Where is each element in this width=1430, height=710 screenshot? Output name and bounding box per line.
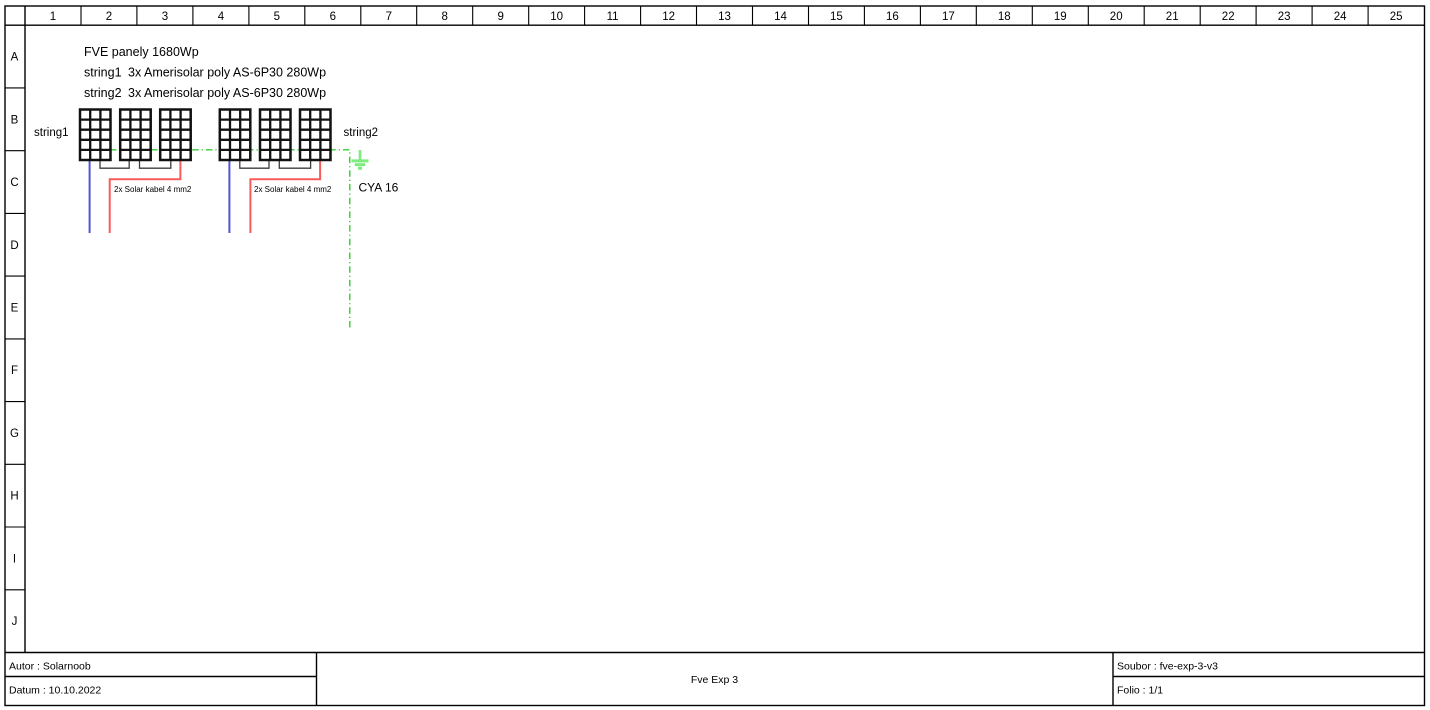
svg-text:10: 10 bbox=[550, 11, 563, 23]
svg-text:Autor : Solarnoob: Autor : Solarnoob bbox=[9, 661, 91, 673]
svg-text:Fve Exp 3: Fve Exp 3 bbox=[691, 674, 738, 686]
solar panel 2 bbox=[120, 110, 151, 161]
svg-text:FVE panely 1680Wp: FVE panely 1680Wp bbox=[84, 45, 199, 59]
svg-text:7: 7 bbox=[386, 11, 392, 23]
svg-text:24: 24 bbox=[1334, 11, 1347, 23]
svg-text:13: 13 bbox=[718, 11, 731, 23]
svg-text:D: D bbox=[10, 240, 18, 252]
svg-text:2x Solar kabel 4 mm2: 2x Solar kabel 4 mm2 bbox=[254, 185, 332, 194]
svg-text:12: 12 bbox=[662, 11, 675, 23]
header texts bbox=[84, 45, 326, 100]
svg-text:14: 14 bbox=[774, 11, 787, 23]
svg-text:string2: string2 bbox=[344, 127, 379, 139]
solar panel 4 bbox=[220, 110, 251, 161]
svg-text:string1: string1 bbox=[84, 66, 122, 80]
svg-text:3: 3 bbox=[162, 11, 168, 23]
solar panel 5 bbox=[260, 110, 291, 161]
svg-text:3x Amerisolar poly AS-6P30 280: 3x Amerisolar poly AS-6P30 280Wp bbox=[128, 86, 326, 100]
svg-text:H: H bbox=[10, 491, 18, 503]
svg-text:8: 8 bbox=[441, 11, 447, 23]
svg-text:9: 9 bbox=[497, 11, 503, 23]
solar panel 6 bbox=[300, 110, 331, 161]
solar panel 1 bbox=[80, 110, 111, 161]
svg-text:11: 11 bbox=[607, 11, 619, 23]
column number cells bbox=[81, 6, 1368, 25]
wire string2 DC plus (red) bbox=[250, 160, 320, 233]
svg-text:19: 19 bbox=[1054, 11, 1067, 23]
svg-text:A: A bbox=[11, 52, 19, 64]
svg-text:J: J bbox=[12, 616, 18, 628]
svg-text:1: 1 bbox=[50, 11, 56, 23]
svg-text:F: F bbox=[11, 365, 18, 377]
ground CYA16 top bbox=[352, 150, 369, 168]
wire panel series links string1 bbox=[100, 160, 311, 168]
svg-text:Datum : 10.10.2022: Datum : 10.10.2022 bbox=[9, 685, 101, 697]
svg-text:E: E bbox=[11, 303, 19, 315]
svg-text:22: 22 bbox=[1222, 11, 1235, 23]
solar panel 3 bbox=[160, 110, 191, 161]
svg-text:17: 17 bbox=[942, 11, 955, 23]
svg-text:18: 18 bbox=[998, 11, 1011, 23]
svg-text:C: C bbox=[10, 177, 18, 189]
svg-text:21: 21 bbox=[1166, 11, 1179, 23]
node string equipotential (green dash-dot through panels) bbox=[110, 150, 350, 329]
svg-text:23: 23 bbox=[1278, 11, 1291, 23]
svg-text:20: 20 bbox=[1110, 11, 1123, 23]
svg-text:16: 16 bbox=[886, 11, 899, 23]
row letter cells bbox=[5, 88, 25, 590]
svg-text:15: 15 bbox=[830, 11, 843, 23]
svg-text:string1: string1 bbox=[34, 127, 69, 139]
svg-text:string2: string2 bbox=[84, 86, 122, 100]
svg-text:5: 5 bbox=[274, 11, 280, 23]
svg-text:3x Amerisolar poly AS-6P30 280: 3x Amerisolar poly AS-6P30 280Wp bbox=[128, 66, 326, 80]
svg-text:CYA 16: CYA 16 bbox=[359, 181, 399, 195]
svg-text:G: G bbox=[10, 428, 19, 440]
svg-text:I: I bbox=[13, 553, 16, 565]
wire string1 DC minus (blue) bbox=[89, 160, 91, 233]
svg-text:2: 2 bbox=[106, 11, 112, 23]
svg-text:B: B bbox=[11, 114, 19, 126]
svg-text:Soubor : fve-exp-3-v3: Soubor : fve-exp-3-v3 bbox=[1117, 661, 1218, 673]
wire string1 DC plus (red) bbox=[110, 160, 181, 233]
title block bbox=[9, 661, 1218, 697]
svg-text:Folio : 1/1: Folio : 1/1 bbox=[1117, 685, 1163, 697]
svg-text:2x Solar kabel 4 mm2: 2x Solar kabel 4 mm2 bbox=[114, 185, 192, 194]
wire string2 DC minus (blue) bbox=[228, 160, 230, 233]
svg-text:25: 25 bbox=[1390, 11, 1403, 23]
svg-text:6: 6 bbox=[330, 11, 336, 23]
svg-text:4: 4 bbox=[218, 11, 225, 23]
